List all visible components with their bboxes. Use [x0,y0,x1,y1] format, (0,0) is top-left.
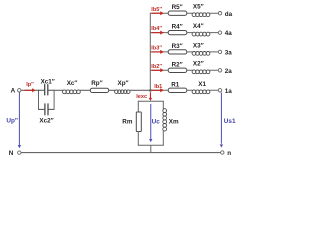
inductor Xc" [63,90,81,94]
svg-text:Ib3″: Ib3″ [151,46,162,52]
svg-text:Ib4″: Ib4″ [151,26,162,32]
svg-text:2a: 2a [225,68,233,75]
capacitor Xc2" [39,104,55,115]
junction node (main) [149,89,152,92]
wire: X4" to terminal [210,32,218,34]
wire: capacitor box right rail [53,90,55,109]
current arrow Ib4" [152,31,164,35]
wire: capacitor box left rail [38,90,40,109]
svg-text:N: N [9,150,14,157]
svg-text:Xc2″: Xc2″ [39,118,53,125]
wire: A to capacitor box [21,89,38,91]
terminal 3a [218,50,221,53]
bottom rail N to n [21,152,220,154]
inductor Xp" [115,90,130,94]
svg-text:R4″: R4″ [172,24,183,31]
resistor R2" [168,68,187,72]
terminal 4a [218,31,221,34]
svg-text:R1: R1 [171,82,180,89]
inductor X2" [192,70,210,74]
svg-text:X1: X1 [198,81,206,88]
magnetizing branch top conductor [138,100,163,102]
inductor X3" [192,52,210,56]
svg-text:da: da [225,11,233,18]
svg-text:Rm: Rm [122,118,133,125]
wire: X5" to terminal [210,12,218,14]
svg-text:Ib1: Ib1 [154,84,162,90]
wire: R4" to X4" [187,32,192,34]
voltage arrow Uc [149,104,152,142]
svg-text:Xp″: Xp″ [118,80,129,87]
svg-text:R3″: R3″ [172,43,183,50]
svg-text:1a: 1a [225,88,233,95]
wire: Rp" to Xp" [109,89,115,91]
svg-text:X2″: X2″ [193,61,204,68]
inductor X1 [192,90,210,94]
svg-text:R5″: R5″ [172,4,183,11]
current arrow Ib2" [152,68,164,72]
svg-text:A: A [11,88,16,95]
svg-text:4a: 4a [225,30,233,37]
inductor X4" [192,32,210,36]
wire: R5" to X5" [187,12,192,14]
magnetizing branch bottom conductor [138,145,163,152]
wire: R3" to X3" [187,51,192,53]
svg-text:Xm: Xm [169,118,179,125]
inductor Xm [163,101,167,145]
resistor Rp" [90,88,108,92]
terminal 2a [218,69,221,72]
branch 5: wire to resistor [150,12,168,14]
current arrow Iexc [149,92,152,101]
feeder wire: vertical riser to branches [149,13,151,90]
resistor R1 [168,88,187,92]
branch 2: wire to resistor [150,69,168,71]
resistor Rm [136,101,141,145]
svg-text:X3″: X3″ [193,42,204,49]
current arrow Ib3" [152,50,164,54]
svg-text:X5″: X5″ [193,4,204,11]
wire: X2" to terminal [210,69,218,71]
terminal da [218,12,221,15]
svg-text:Us1: Us1 [224,118,236,125]
resistor R3" [168,50,187,54]
voltage arrow Us1 [220,93,223,148]
wire: Xc" to Rp" [80,89,90,91]
svg-text:Ib5″: Ib5″ [151,7,162,13]
current arrow Ib1 [152,88,164,92]
wire: R2" to X2" [187,69,192,71]
capacitor Xc1" [39,85,55,95]
svg-text:Rp″: Rp″ [91,80,102,87]
resistor R5" [168,11,187,15]
svg-text:X4″: X4″ [193,23,204,30]
voltage arrow Up" [18,93,21,149]
svg-text:n: n [227,150,231,157]
svg-text:Iexc: Iexc [136,94,147,100]
current arrow Ip" [25,88,36,92]
current arrow Ib5" [152,11,164,15]
wire: cap box to inductor Xc" [54,89,63,91]
svg-text:Xc1″: Xc1″ [41,78,55,85]
svg-text:R2″: R2″ [172,61,183,68]
wire: R1 to X1 [187,89,192,91]
branch 3: wire to resistor [150,51,168,53]
svg-text:Ib2″: Ib2″ [151,64,162,70]
branch 4: wire to resistor [150,32,168,34]
terminal 1a [218,89,221,92]
resistor R4" [168,30,187,34]
svg-text:Ip″: Ip″ [26,82,34,88]
svg-text:Uc: Uc [152,119,161,126]
wire: X1 to terminal [210,89,218,91]
terminal n [221,151,224,154]
svg-text:Up″: Up″ [6,118,18,125]
branch 1: wire to resistor [150,89,168,91]
inductor X5" [192,13,210,17]
wire: X3" to terminal [210,51,218,53]
wire: Xp" to main junction [130,89,151,91]
svg-text:Xc″: Xc″ [67,80,78,87]
svg-text:3a: 3a [225,50,233,57]
